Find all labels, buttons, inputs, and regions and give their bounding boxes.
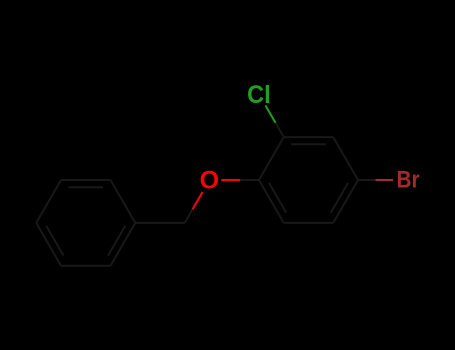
wire bond Cl-V2 chlorine half <box>265 105 275 122</box>
wire bond V1-V2 <box>259 137 284 180</box>
wire bond V5-V6 <box>284 222 334 224</box>
oxygen bonds (red halves) <box>193 180 241 209</box>
wire bond B4-B5 <box>36 223 61 266</box>
central ring (bromo-chloro benzene) outline <box>259 123 376 223</box>
double bond inner B4-B5 <box>46 226 63 256</box>
wire bond O-CH2 oxygen half <box>193 192 203 209</box>
wire bond V2-V3 <box>284 136 334 138</box>
wire bond B3-B4 <box>36 180 61 223</box>
svg-text:Cl: Cl <box>247 81 271 109</box>
wire bond O-V1 carbon half <box>240 179 259 181</box>
double bond inner V2-V3 <box>291 143 326 145</box>
double bond inner B2-B3 <box>69 186 104 188</box>
wire bond B2-B3 <box>61 179 111 181</box>
wire bond V4-V5 <box>333 180 358 223</box>
double bond inner B6-B1 <box>108 226 125 256</box>
svg-text:Br: Br <box>397 167 420 194</box>
wire bond B6-B1 <box>111 223 136 266</box>
wire bond Br-V4 bromine half <box>376 179 394 181</box>
wire bond Cl-V2 carbon half <box>276 123 284 137</box>
double bond inner V6-V1 <box>269 183 286 213</box>
wire bond B1-B2 <box>111 180 136 223</box>
wire bond O-V1 oxygen half <box>221 179 240 181</box>
wire bond B5-B6 <box>61 265 111 267</box>
wire bond CH2-B1 <box>135 222 185 224</box>
wire bond V3-V4 <box>333 137 358 180</box>
benzyl ring (left benzene) outline <box>36 180 259 266</box>
wire bond O-CH2 carbon half <box>185 209 193 223</box>
double bond inner V4-V5 <box>331 183 348 213</box>
wire bond Br-V4 carbon half <box>358 179 376 181</box>
wire bond V6-V1 <box>259 180 284 223</box>
svg-text:O: O <box>200 167 219 195</box>
chlorine bond (green half) <box>265 105 275 122</box>
bromine bond (brown half) <box>376 179 394 181</box>
